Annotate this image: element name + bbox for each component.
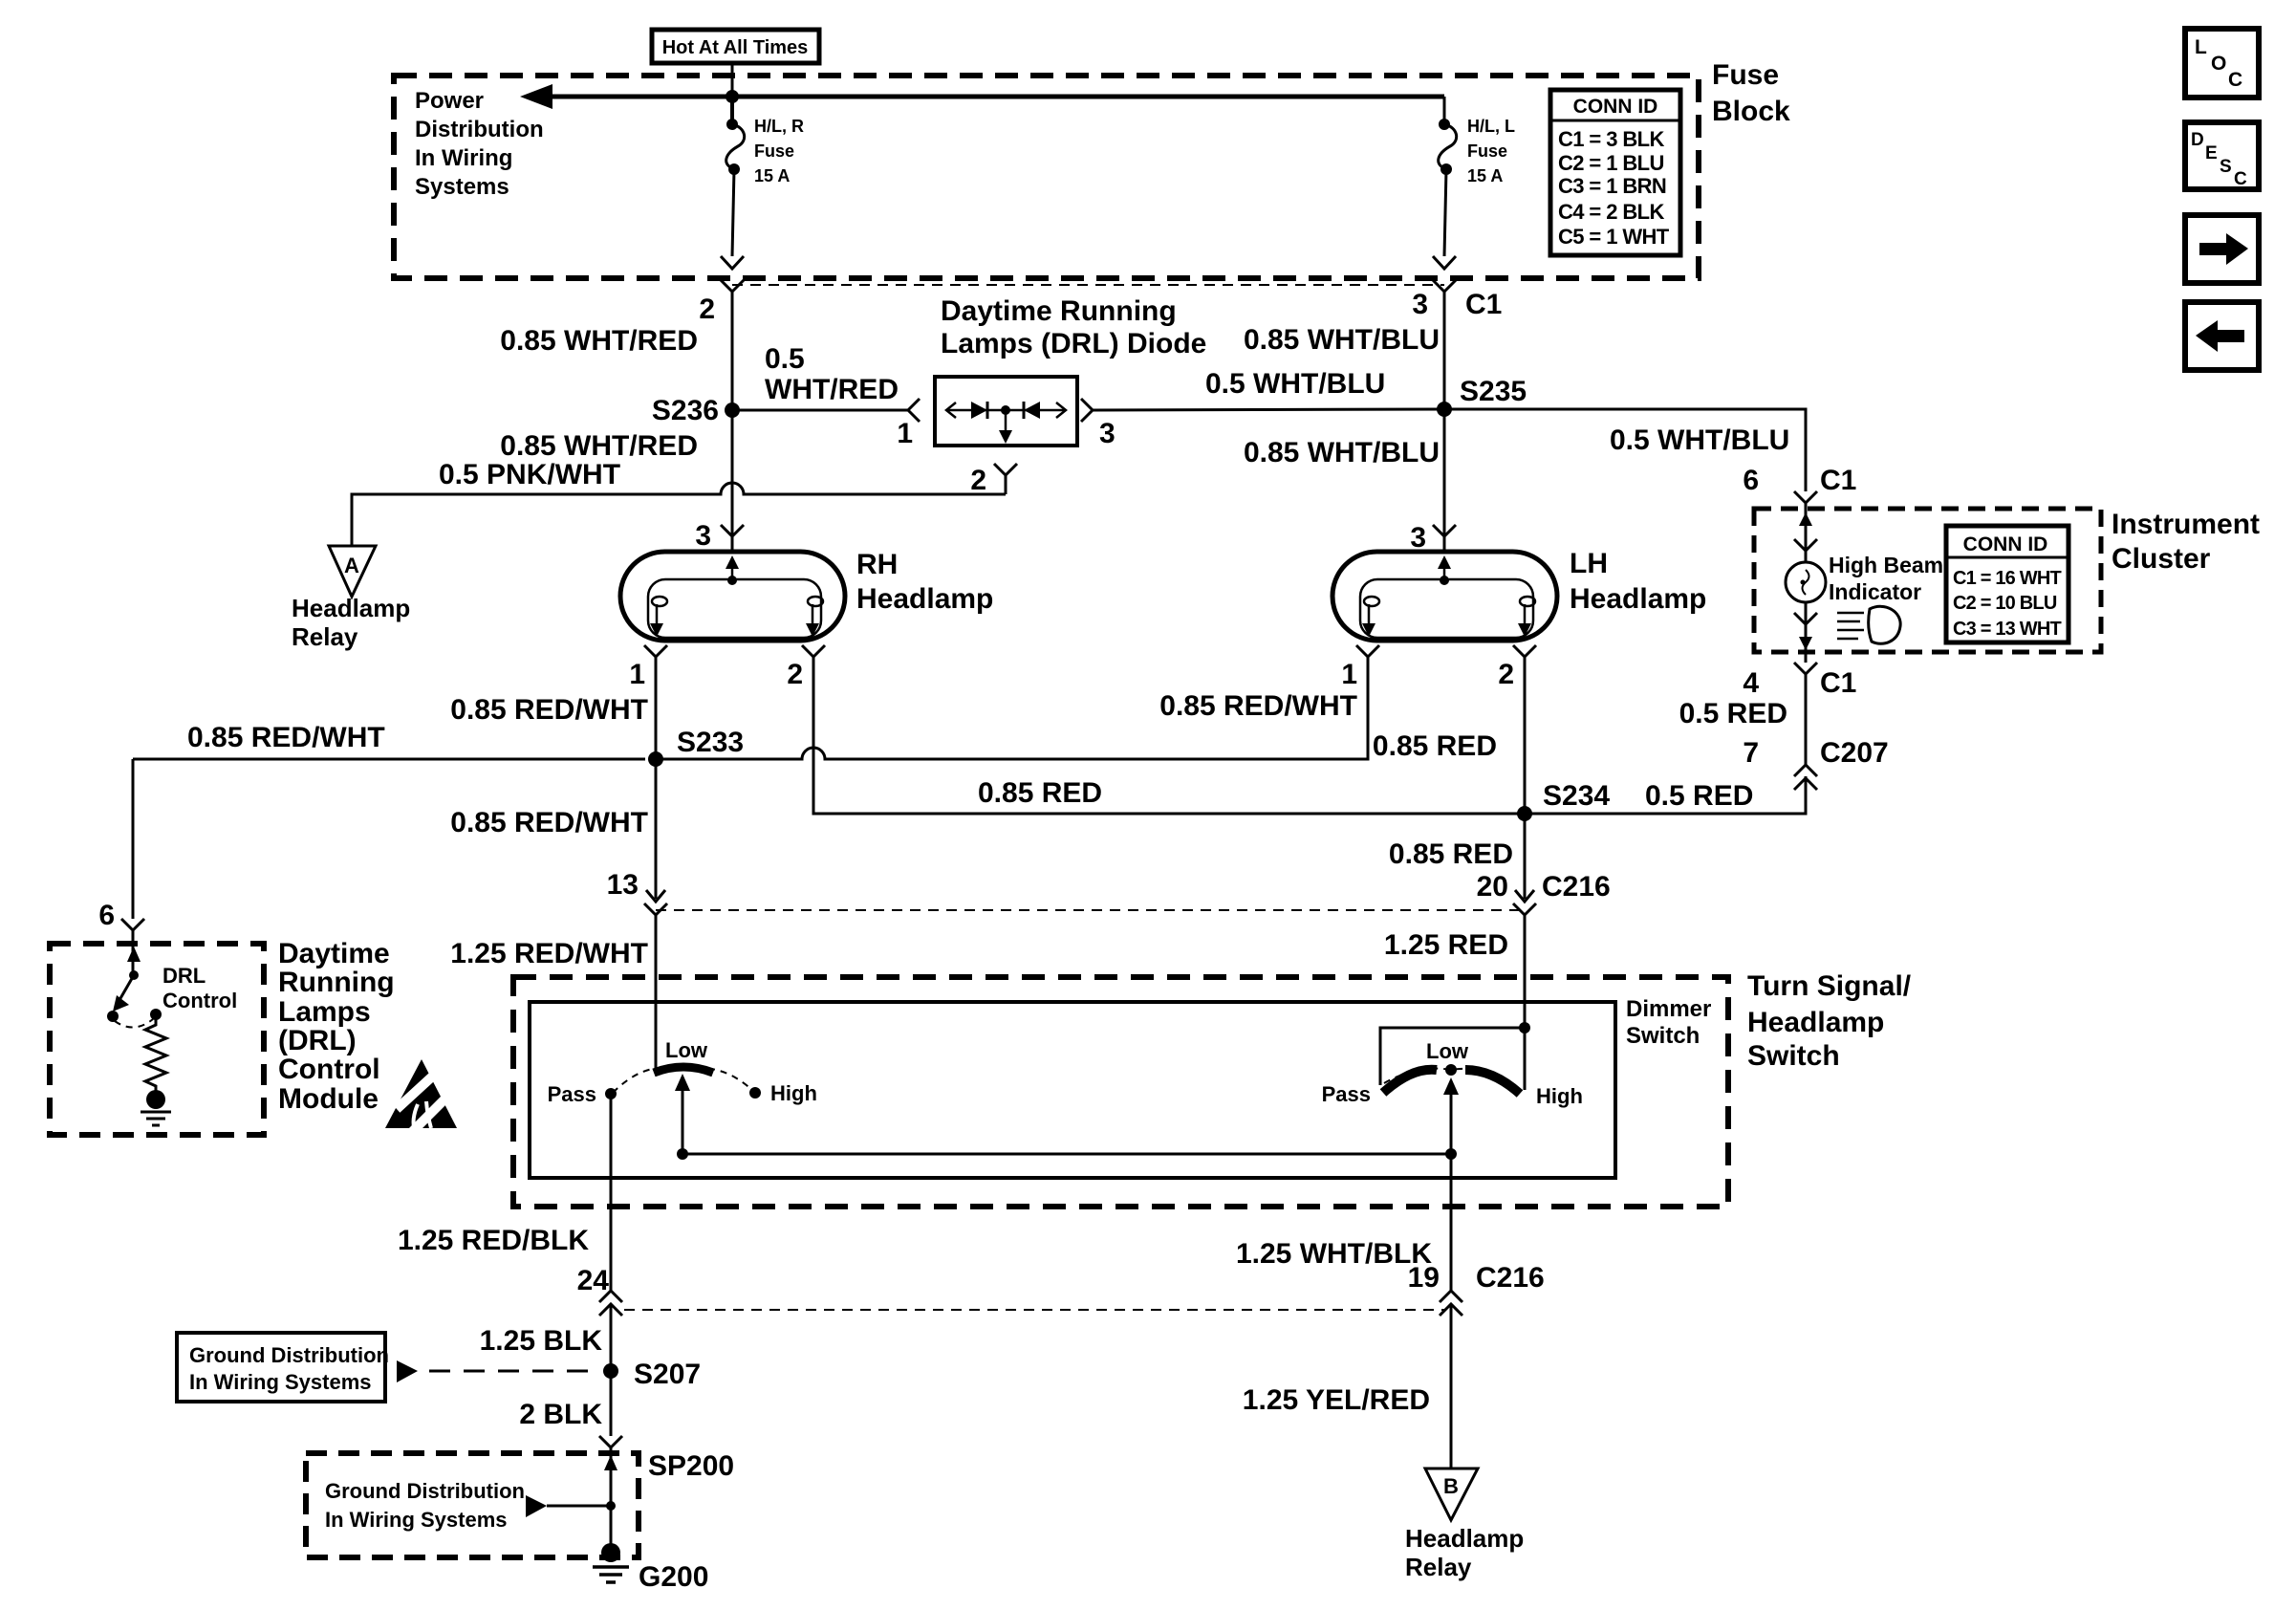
svg-text:A: A — [344, 554, 359, 577]
svg-text:High Beam: High Beam — [1829, 553, 1943, 577]
splice S207 — [603, 1363, 618, 1379]
svg-text:Daytime Running: Daytime Running — [941, 295, 1177, 327]
svg-text:C3 = 13 WHT: C3 = 13 WHT — [1953, 619, 2061, 640]
svg-text:O: O — [2211, 53, 2226, 75]
wire into box with up arrow — [610, 1447, 613, 1553]
svg-text:7: 7 — [1743, 737, 1759, 769]
svg-text:1.25 RED/BLK: 1.25 RED/BLK — [398, 1225, 589, 1256]
right dimmer high contact arc — [1465, 1070, 1520, 1094]
chevron diode pin1 — [908, 399, 920, 422]
arrow from box1 — [397, 1360, 418, 1382]
svg-text:Block: Block — [1712, 96, 1790, 127]
svg-text:C: C — [2234, 169, 2247, 189]
splice S234 — [1517, 806, 1532, 821]
svg-text:Headlamp: Headlamp — [1405, 1524, 1524, 1553]
svg-text:1.25 RED: 1.25 RED — [1384, 929, 1508, 961]
chevron LH pin3 — [1433, 525, 1456, 536]
svg-text:C2 = 10 BLU: C2 = 10 BLU — [1953, 593, 2057, 614]
RH headlamp outer — [620, 552, 845, 641]
svg-text:DRL: DRL — [162, 964, 206, 988]
wire diode pin2 down to pnk/wht run — [1005, 475, 1007, 494]
connector C1 dashed line below fuse block — [732, 284, 1444, 286]
long 0.85 RED/WHT wire with hop at RH pin2 — [133, 758, 645, 761]
svg-text:2: 2 — [787, 659, 803, 690]
svg-text:0.5 WHT/BLU: 0.5 WHT/BLU — [1205, 368, 1385, 400]
chevron SP200 — [599, 1436, 622, 1447]
LH headlamp: wire S235 down to pin3 — [1443, 409, 1446, 536]
LH headlamp outer — [1332, 552, 1557, 641]
svg-text:13: 13 — [607, 869, 639, 901]
wire C1 pin2 to S236 — [731, 292, 734, 410]
svg-text:C207: C207 — [1820, 737, 1889, 769]
wire pin19 down to triangle B — [1450, 1304, 1453, 1469]
dimmer switch inner box — [530, 1002, 1615, 1178]
wire 0.5 WHT/BLU from S235 right down to C1 pin6 — [1444, 409, 1806, 491]
svg-text:C216: C216 — [1542, 871, 1611, 903]
svg-text:C3 = 1 BRN: C3 = 1 BRN — [1558, 174, 1666, 198]
svg-text:Fuse: Fuse — [754, 141, 794, 161]
svg-text:Module: Module — [278, 1083, 379, 1115]
svg-text:S234: S234 — [1543, 780, 1610, 812]
pnk/wht wire with hop over vertical — [352, 483, 1006, 546]
diode down arrow to pin2 — [1005, 410, 1007, 432]
wire S234 down to pin20 — [1524, 814, 1527, 899]
svg-text:CONN ID: CONN ID — [1573, 96, 1658, 118]
svg-text:E: E — [2205, 143, 2218, 163]
wire S236 to diode pin1 — [732, 409, 908, 412]
svg-text:20: 20 — [1477, 871, 1508, 903]
wire diode pin3 to S235 — [1093, 409, 1444, 410]
svg-text:0.5 RED: 0.5 RED — [1645, 780, 1753, 812]
svg-text:6: 6 — [98, 900, 115, 931]
svg-text:15 A: 15 A — [1467, 166, 1503, 185]
DRL switch: wire in with up arrow — [132, 930, 135, 975]
node bus junction — [726, 90, 739, 103]
svg-text:0.5 RED: 0.5 RED — [1679, 698, 1787, 729]
left dimmer low contact arc — [654, 1067, 713, 1073]
svg-text:H/L, R: H/L, R — [754, 117, 804, 136]
svg-text:1.25 YEL/RED: 1.25 YEL/RED — [1243, 1384, 1430, 1416]
svg-text:1.25 WHT/BLK: 1.25 WHT/BLK — [1236, 1238, 1432, 1270]
left dimmer dashed throw arc — [613, 1068, 754, 1093]
svg-text:(DRL): (DRL) — [278, 1025, 357, 1056]
diode center node — [1001, 405, 1010, 415]
svg-text:Switch: Switch — [1747, 1040, 1840, 1072]
svg-text:0.5: 0.5 — [765, 343, 805, 375]
svg-text:Lamps (DRL) Diode: Lamps (DRL) Diode — [941, 328, 1206, 359]
svg-text:WHT/RED: WHT/RED — [765, 374, 899, 405]
chevron RH pin1 — [644, 645, 667, 657]
svg-text:15 A: 15 A — [754, 166, 790, 185]
triangle B headlamp relay — [1425, 1469, 1478, 1520]
turn signal / headlamp switch dashed box — [513, 977, 1728, 1207]
svg-text:0.85 RED/WHT: 0.85 RED/WHT — [1159, 690, 1357, 722]
svg-text:High: High — [770, 1081, 817, 1105]
svg-text:1: 1 — [897, 418, 913, 449]
DRL switch blade — [119, 975, 134, 1000]
svg-text:C1: C1 — [1820, 667, 1856, 699]
left arrow box — [2185, 302, 2259, 370]
svg-text:Headlamp: Headlamp — [856, 583, 993, 615]
svg-text:Low: Low — [1426, 1039, 1469, 1063]
svg-text:Indicator: Indicator — [1829, 579, 1921, 604]
svg-text:6: 6 — [1743, 465, 1759, 496]
svg-text:1: 1 — [629, 659, 645, 690]
chevron LH pin1 — [1356, 645, 1379, 657]
splice S233 — [648, 751, 663, 767]
wire left end down to DRL control 6 — [132, 759, 135, 919]
svg-text:Ground Distribution: Ground Distribution — [189, 1343, 389, 1367]
right dimmer pass contact arc — [1383, 1070, 1437, 1093]
svg-text:C1 = 16 WHT: C1 = 16 WHT — [1953, 568, 2061, 589]
splice S235 — [1437, 402, 1452, 417]
ground distribution box 1 — [177, 1333, 385, 1402]
chevron diode pin3 — [1081, 399, 1093, 422]
RH filament common node + up arrow — [727, 576, 737, 585]
svg-text:0.85 RED: 0.85 RED — [1373, 730, 1497, 762]
svg-text:Fuse: Fuse — [1712, 59, 1779, 91]
svg-text:Hot At All Times: Hot At All Times — [662, 37, 809, 58]
svg-text:Control: Control — [278, 1054, 380, 1085]
svg-text:0.5 PNK/WHT: 0.5 PNK/WHT — [439, 459, 620, 490]
svg-text:Headlamp: Headlamp — [292, 594, 410, 622]
svg-text:0.85 RED: 0.85 RED — [1389, 838, 1513, 870]
wiper bus wire — [682, 1153, 1451, 1156]
RH high filament — [808, 597, 823, 606]
right arrow box — [2185, 215, 2259, 283]
svg-text:C1: C1 — [1820, 465, 1856, 496]
LOC box — [2185, 29, 2259, 98]
fuse block / power distribution dashed box — [394, 76, 1699, 278]
svg-text:3: 3 — [1099, 418, 1116, 449]
svg-text:High: High — [1536, 1084, 1583, 1108]
wire fuse F2 down + arrow — [1444, 169, 1446, 256]
svg-text:D: D — [2191, 130, 2204, 150]
svg-text:19: 19 — [1408, 1262, 1440, 1294]
svg-text:Control: Control — [162, 989, 237, 1012]
svg-text:1.25 RED/WHT: 1.25 RED/WHT — [450, 938, 648, 969]
wire pin20 into dimmer — [1524, 915, 1527, 1028]
svg-text:Headlamp: Headlamp — [1747, 1007, 1884, 1038]
left dimmer wiper arrow — [682, 1087, 684, 1154]
wire bus to fuse F1 — [730, 97, 734, 124]
svg-text:0.85 WHT/RED: 0.85 WHT/RED — [500, 325, 698, 357]
svg-text:Relay: Relay — [292, 622, 358, 651]
svg-text:C216: C216 — [1476, 1262, 1545, 1294]
ESD symbol — [385, 1059, 457, 1128]
svg-text:SP200: SP200 — [648, 1450, 734, 1482]
svg-text:Headlamp: Headlamp — [1570, 583, 1706, 615]
instrument cluster CONN ID table — [1946, 526, 2069, 642]
chevron pin3 C1 — [1433, 280, 1456, 292]
LH filament common node + up arrow — [1440, 576, 1449, 585]
svg-text:0.5 WHT/BLU: 0.5 WHT/BLU — [1610, 424, 1789, 456]
C216 dashed connector line upper — [656, 909, 1525, 911]
svg-text:C1 = 3 BLK: C1 = 3 BLK — [1558, 127, 1664, 151]
ground distribution dashed box 2 — [306, 1453, 639, 1557]
wire S233 down to pin13 — [655, 759, 658, 899]
triangle A headlamp relay — [329, 546, 376, 597]
dashed line to S207 — [429, 1370, 600, 1373]
svg-text:2 BLK: 2 BLK — [519, 1399, 602, 1430]
instrument cluster dashed box — [1754, 509, 2101, 652]
left dimmer pass contact — [605, 1088, 617, 1099]
chevron C1 pin4 — [1794, 663, 1817, 674]
svg-text:S233: S233 — [677, 727, 744, 758]
svg-text:3: 3 — [695, 520, 711, 552]
svg-text:0.85 RED/WHT: 0.85 RED/WHT — [450, 807, 648, 838]
svg-text:0.85 RED/WHT: 0.85 RED/WHT — [187, 722, 385, 753]
svg-text:Dimmer: Dimmer — [1626, 996, 1711, 1022]
high beam indicator lamp — [1786, 562, 1826, 602]
svg-text:C4 = 2 BLK: C4 = 2 BLK — [1558, 200, 1664, 224]
diode D2 — [1024, 402, 1040, 419]
DESC box — [2185, 122, 2259, 189]
svg-text:B: B — [1443, 1474, 1459, 1498]
fuse H/L R 15A — [726, 119, 738, 130]
right dimmer low dot — [1445, 1064, 1457, 1076]
svg-text:G200: G200 — [639, 1561, 708, 1593]
svg-text:Power: Power — [415, 88, 484, 114]
chevron diode pin2 — [994, 464, 1017, 475]
wire RH pin1 down to S233 — [655, 657, 658, 759]
svg-text:C: C — [2228, 69, 2242, 91]
svg-text:Systems: Systems — [415, 174, 509, 200]
svg-text:Cluster: Cluster — [2112, 543, 2211, 575]
wire LH pin2 down to S234 — [1524, 657, 1527, 814]
C216 dashed connector line lower — [624, 1309, 1445, 1311]
svg-text:24: 24 — [577, 1265, 610, 1296]
svg-text:S235: S235 — [1460, 376, 1527, 407]
LH low filament — [1364, 597, 1379, 606]
wire fuse F1 down + arrow — [732, 169, 734, 256]
wire pin4 up into instrument cluster — [1805, 646, 1808, 663]
svg-text:S236: S236 — [652, 395, 719, 426]
svg-text:In Wiring: In Wiring — [415, 145, 512, 171]
wire S236 down to RH pin3 — [731, 410, 734, 536]
right dimmer feed: dot and L wire — [1519, 1022, 1530, 1033]
svg-text:Running: Running — [278, 967, 395, 998]
chevron pin2 C1 — [721, 280, 744, 292]
svg-text:Distribution: Distribution — [415, 117, 544, 142]
chevron C1 pin6 — [1794, 491, 1817, 503]
svg-text:2: 2 — [970, 465, 986, 496]
DRL switch contacts — [107, 1011, 119, 1022]
svg-text:Lamps: Lamps — [278, 996, 371, 1028]
diode internal line with end arrows — [946, 409, 1066, 412]
ground G200 — [601, 1543, 620, 1562]
svg-text:Fuse: Fuse — [1467, 141, 1507, 161]
svg-text:2: 2 — [1498, 659, 1514, 690]
wire S234 right then up to C207 pin7 — [1525, 776, 1806, 814]
arrow from text to wire — [526, 1495, 547, 1517]
svg-text:3: 3 — [1410, 522, 1426, 554]
svg-text:In Wiring Systems: In Wiring Systems — [325, 1508, 508, 1532]
svg-text:L: L — [2195, 36, 2207, 58]
splice S236 — [725, 402, 740, 418]
fuse block CONN ID table — [1550, 90, 1680, 255]
wire from hot box down — [731, 63, 734, 97]
svg-text:4: 4 — [1743, 667, 1759, 699]
svg-text:0.85 WHT/BLU: 0.85 WHT/BLU — [1244, 324, 1440, 356]
svg-text:Ground Distribution: Ground Distribution — [325, 1479, 525, 1503]
DRL diode box — [935, 377, 1077, 446]
svg-text:S207: S207 — [634, 1359, 701, 1390]
wire pin7 up to C1 pin4 — [1805, 674, 1808, 765]
right dimmer dashed throw arc — [1384, 1069, 1519, 1090]
resistor — [145, 1014, 166, 1092]
diode D1 — [971, 402, 987, 419]
wire pin13 to dimmer low — [655, 915, 658, 1069]
beam icon — [1837, 613, 1864, 639]
svg-text:LH: LH — [1570, 548, 1608, 579]
left dimmer high contact — [749, 1087, 761, 1099]
RH low filament — [652, 597, 667, 606]
chevron RH pin2 — [802, 645, 825, 657]
RH headlamp inner — [648, 579, 821, 638]
svg-text:Daytime: Daytime — [278, 938, 390, 969]
svg-text:Pass: Pass — [1322, 1082, 1371, 1106]
DRL switch dashed arc — [115, 1019, 153, 1028]
svg-text:CONN ID: CONN ID — [1963, 533, 2048, 555]
DRL control module dashed box — [50, 944, 264, 1135]
resistor ground dot — [146, 1090, 165, 1109]
wire bus to fuse F2 — [1443, 97, 1446, 124]
chevron DRL pin6 — [121, 919, 144, 930]
svg-text:RH: RH — [856, 549, 898, 580]
svg-text:0.85 RED/WHT: 0.85 RED/WHT — [450, 694, 648, 726]
svg-text:1.25 BLK: 1.25 BLK — [480, 1325, 603, 1357]
svg-text:Pass: Pass — [548, 1082, 596, 1106]
svg-text:0.85 WHT/BLU: 0.85 WHT/BLU — [1244, 437, 1440, 468]
svg-text:Switch: Switch — [1626, 1023, 1700, 1049]
svg-text:3: 3 — [1412, 289, 1428, 320]
svg-text:0.85 RED: 0.85 RED — [978, 777, 1102, 809]
svg-text:2: 2 — [699, 294, 715, 325]
svg-text:H/L, L: H/L, L — [1467, 117, 1515, 136]
Hot At All Times box — [652, 30, 819, 63]
svg-text:Instrument: Instrument — [2112, 509, 2260, 540]
high beam indicator wire bottom — [1805, 602, 1808, 646]
svg-text:Low: Low — [665, 1038, 708, 1062]
svg-text:Turn Signal/: Turn Signal/ — [1747, 970, 1912, 1002]
LH headlamp inner — [1360, 579, 1533, 638]
svg-text:C1: C1 — [1465, 289, 1502, 320]
right wiper wire down to pin19 — [1450, 1154, 1453, 1291]
svg-text:Relay: Relay — [1405, 1553, 1472, 1581]
wire pin24 down to S207 — [610, 1304, 613, 1436]
right dimmer wiper arrow — [1450, 1091, 1453, 1154]
svg-text:0.85 WHT/RED: 0.85 WHT/RED — [500, 430, 698, 462]
svg-text:1: 1 — [1341, 659, 1357, 690]
wire RH pin2 down then right to S234 — [813, 657, 1525, 814]
bus wire with left arrow — [535, 95, 1444, 99]
svg-text:S: S — [2220, 157, 2232, 177]
chevron RH pin3 — [721, 525, 744, 536]
chevron LH pin2 — [1513, 645, 1536, 657]
svg-text:C5 = 1 WHT: C5 = 1 WHT — [1558, 225, 1670, 249]
LH high filament — [1520, 597, 1535, 606]
high beam indicator wire top — [1805, 503, 1808, 563]
wire C1 pin3 to S235 — [1443, 292, 1446, 409]
svg-text:In Wiring Systems: In Wiring Systems — [189, 1370, 372, 1394]
left pass wire down to pin24 — [610, 1094, 613, 1291]
fuse H/L L 15A — [1439, 119, 1450, 130]
connector C207 double chevron — [1794, 765, 1817, 776]
svg-text:C2 = 1 BLU: C2 = 1 BLU — [1558, 151, 1664, 175]
